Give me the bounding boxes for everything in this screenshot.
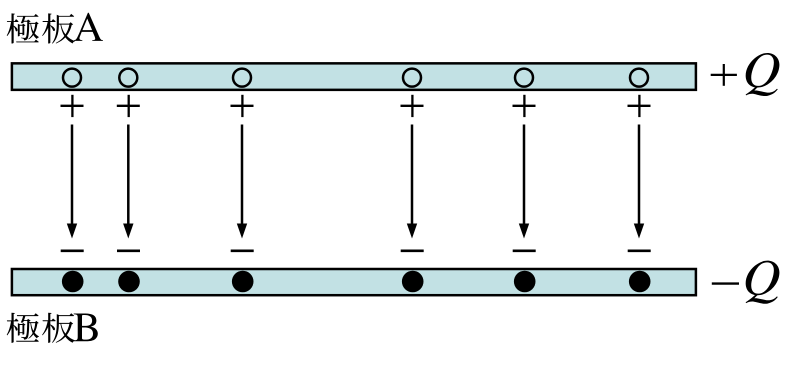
- label: plate B name (極板B): [7, 313, 98, 343]
- negative charge n6: [629, 271, 651, 293]
- negative charge n4: [402, 271, 424, 293]
- negative charge n2: [118, 271, 140, 293]
- label: plate A name (極板A): [7, 13, 103, 44]
- plus sign s3: [231, 95, 254, 117]
- minus sign m6: [628, 250, 651, 253]
- electric field arrow E2: [123, 125, 133, 239]
- electric field arrow E5: [519, 125, 529, 239]
- electric field arrow E3: [237, 125, 247, 239]
- negative charge n3: [232, 271, 254, 293]
- label: total charge +Q on plate A: [711, 53, 780, 96]
- plus sign s6: [628, 95, 651, 117]
- negative charge n1: [62, 271, 84, 293]
- minus sign m3: [231, 250, 254, 253]
- positive charge q1: [63, 69, 81, 87]
- electric field arrow E1: [67, 125, 77, 239]
- positive charge q6: [630, 69, 648, 87]
- positive charge q4: [403, 69, 421, 87]
- electric field arrow E4: [407, 125, 417, 239]
- minus sign m5: [513, 250, 536, 253]
- electric field arrow E6: [634, 125, 644, 239]
- plate B (bottom electrode): [12, 269, 696, 295]
- label: total charge -Q on plate B: [712, 261, 780, 304]
- plus sign s1: [61, 95, 84, 117]
- plate A (top electrode): [12, 63, 696, 90]
- plus sign s5: [513, 95, 536, 117]
- minus sign m1: [61, 250, 84, 253]
- positive charge q5: [515, 69, 533, 87]
- minus sign m4: [401, 250, 424, 253]
- negative charge n5: [514, 271, 536, 293]
- positive charge q2: [119, 69, 137, 87]
- minus sign m2: [117, 250, 140, 253]
- plus sign s4: [401, 95, 424, 117]
- positive charge q3: [233, 69, 251, 87]
- plus sign s2: [117, 95, 140, 117]
